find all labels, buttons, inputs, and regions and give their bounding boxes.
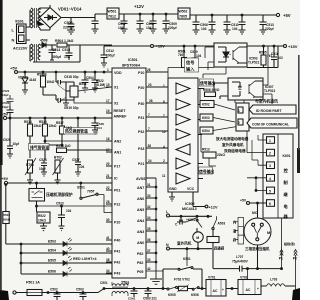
svg-text:K502: K502 [202,103,210,107]
svg-text:AWREF: AWREF [114,115,128,119]
svg-text:10A: 10A [64,55,71,59]
svg-text:+5V: +5V [240,199,247,203]
svg-text:S501: S501 [77,186,85,190]
svg-text:输入: 输入 [186,66,195,73]
svg-text:C515: C515 [62,48,70,52]
svg-text:+: + [222,288,224,292]
svg-text:C501: C501 [100,281,108,285]
svg-text:信号: 信号 [186,59,194,66]
svg-text:器: 器 [283,213,289,220]
svg-text:E503: E503 [48,240,56,244]
svg-text:P21: P21 [138,162,144,166]
svg-text:C505: C505 [64,21,73,25]
svg-text:8PST0064: 8PST0064 [122,64,141,68]
svg-text:TLP521: TLP521 [248,61,260,65]
svg-text:P32: P32 [138,130,144,134]
svg-text:K601: K601 [283,154,291,158]
svg-text:10kΩ: 10kΩ [47,80,55,84]
svg-text:P43: P43 [114,272,120,276]
svg-text:R500K: R500K [37,73,48,77]
svg-text:信号输出: 信号输出 [200,81,215,86]
svg-text:P01: P01 [114,189,120,193]
svg-text:220μf: 220μf [168,26,178,30]
svg-text:36: 36 [147,238,151,242]
svg-text:R506 200Ω: R506 200Ω [203,88,220,92]
svg-text:10μf: 10μf [39,167,46,171]
svg-text:33: 33 [147,258,151,262]
svg-text:AN6: AN6 [137,197,144,201]
svg-text:19: 19 [106,109,110,113]
svg-text:7: 7 [163,114,165,118]
svg-text:10μf: 10μf [2,105,9,109]
svg-text:10kΩ: 10kΩ [38,219,46,223]
svg-text:三相变频压缩机: 三相变频压缩机 [245,246,270,251]
svg-text:RESET: RESET [114,109,127,113]
svg-text:4508: 4508 [40,39,48,43]
svg-text:7: 7 [148,113,150,117]
svg-text:104: 104 [118,26,124,30]
svg-text:22: 22 [106,186,110,190]
svg-text:VD01~VD14: VD01~VD14 [58,7,82,12]
svg-text:AN0: AN0 [137,241,144,245]
svg-text:15kΩ: 15kΩ [34,124,42,128]
svg-text:COM OF COMMUNICAL: COM OF COMMUNICAL [252,123,289,127]
svg-text:4: 4 [269,177,271,181]
svg-text:P10: P10 [138,71,144,75]
svg-text:T501: T501 [121,281,129,285]
svg-text:705T: 705T [87,190,96,194]
svg-text:37: 37 [147,249,151,253]
svg-text:C524: C524 [39,158,47,162]
svg-text:4: 4 [163,145,165,149]
svg-text:104: 104 [66,209,72,213]
svg-text:102: 102 [278,56,284,60]
svg-text:20: 20 [106,162,110,166]
svg-text:26: 26 [147,68,151,72]
svg-text:15: 15 [106,83,110,87]
svg-text:30: 30 [106,218,110,222]
svg-text:28: 28 [149,99,153,103]
svg-text:XS01: XS01 [15,20,24,24]
svg-text:B501: B501 [79,82,87,86]
svg-text:P30: P30 [138,102,144,106]
svg-text:排气管管温: 排气管管温 [30,145,49,150]
svg-text:2: 2 [238,121,240,125]
svg-text:双绕组继电器: 双绕组继电器 [224,148,246,153]
svg-text:C561: C561 [128,297,136,300]
svg-text:2200μf: 2200μf [63,26,75,30]
svg-text:AVSS: AVSS [136,177,146,181]
svg-text:560Ω: 560Ω [3,218,11,222]
svg-text:制: 制 [284,179,288,186]
svg-text:BT03: BT03 [26,163,34,167]
svg-text:K501: K501 [183,257,191,261]
svg-text:R504 1.3kΩ: R504 1.3kΩ [55,39,74,43]
svg-text:2: 2 [163,159,165,163]
svg-text:(8.2M): (8.2M) [96,83,105,87]
svg-text:1: 1 [163,84,165,88]
svg-text:104: 104 [232,27,238,31]
svg-text:N: N [166,243,169,247]
svg-text:+5V: +5V [283,13,291,18]
svg-text:34: 34 [147,216,151,220]
svg-text:N: N [12,38,15,43]
svg-text:7812: 7812 [108,15,116,19]
svg-text:E506: E506 [48,270,56,274]
svg-text:C519 30p: C519 30p [64,106,78,110]
svg-text:16: 16 [106,137,110,141]
svg-text:空: 空 [238,85,242,90]
svg-text:E505: E505 [48,259,56,263]
svg-text:K505: K505 [168,293,176,297]
svg-text:ID ROOM PART: ID ROOM PART [256,109,282,113]
svg-text:VCC: VCC [187,187,195,191]
svg-text:42: 42 [147,267,151,271]
svg-text:AN4: AN4 [137,219,144,223]
svg-text:R522: R522 [38,214,46,218]
svg-text:+: + [257,287,259,291]
svg-text:P10: P10 [114,221,120,225]
svg-text:31: 31 [147,183,151,187]
svg-text:V701: V701 [208,276,216,280]
svg-text:P2: P2 [293,257,297,261]
svg-text:L703: L703 [270,278,277,282]
svg-text:热交换器管温: 热交换器管温 [65,129,88,134]
svg-text:34: 34 [106,269,110,273]
svg-text:5: 5 [269,189,271,193]
svg-text:41: 41 [106,236,110,240]
svg-text:K503: K503 [202,116,210,120]
svg-text:E504: E504 [48,249,56,253]
svg-text:C502: C502 [50,288,58,292]
svg-text:R515: R515 [39,120,47,124]
svg-text:38: 38 [106,258,110,262]
svg-text:P40: P40 [114,239,120,243]
svg-text:C504: C504 [86,76,94,80]
svg-text:MC: MC [252,211,258,215]
svg-text:40: 40 [106,247,110,251]
svg-text:信号输出: 信号输出 [199,169,214,174]
svg-text:R514: R514 [24,120,32,124]
svg-text:+5V: +5V [1,176,9,181]
svg-text:10: 10 [162,130,166,134]
svg-text:7k0: 7k0 [178,53,184,57]
svg-text:7: 7 [148,127,150,131]
svg-text:1: 1 [107,68,109,72]
svg-text:+K502: +K502 [186,218,196,222]
svg-text:+5V: +5V [10,66,18,71]
svg-text:AC: AC [246,288,251,292]
svg-text:C527: C527 [72,158,80,162]
svg-text:35: 35 [147,227,151,231]
svg-text:MIC4413: MIC4413 [182,207,197,211]
svg-text:K504: K504 [202,129,210,133]
svg-text:R505: R505 [259,51,267,55]
svg-text:21: 21 [106,174,110,178]
svg-text:11: 11 [162,174,166,178]
svg-text:A503: A503 [218,222,226,226]
svg-text:C525: C525 [3,138,11,142]
svg-text:C503: C503 [76,288,84,292]
svg-text:压缩机顶部保护: 压缩机顶部保护 [46,192,73,197]
svg-text:104: 104 [97,126,102,130]
svg-text:104: 104 [196,54,202,58]
svg-text:AN2: AN2 [114,140,121,144]
svg-text:启: 启 [233,237,237,242]
svg-text:AC220V: AC220V [13,47,28,51]
svg-text:GND: GND [169,187,177,191]
svg-text:IC: IC [114,177,118,181]
svg-text:1: 1 [238,109,240,113]
svg-text:1: 1 [269,139,271,143]
svg-text:室外风机: 室外风机 [177,241,192,246]
svg-text:6: 6 [269,202,271,206]
svg-text:P12: P12 [114,203,120,207]
svg-text:C563 221: C563 221 [143,297,157,300]
svg-text:100μf: 100μf [106,54,116,58]
svg-text:P05: P05 [137,270,143,274]
svg-text:10μf: 10μf [2,93,9,97]
svg-text:P41: P41 [114,250,120,254]
svg-text:4148: 4148 [29,78,36,82]
svg-text:R518 1kΩ: R518 1kΩ [56,144,71,148]
svg-text:7805: 7805 [179,15,187,19]
svg-text:R549: R549 [3,213,11,217]
svg-text:23: 23 [148,83,152,87]
svg-text:3: 3 [269,164,271,168]
svg-text:33: 33 [147,194,151,198]
svg-text:P42: P42 [114,261,120,265]
svg-text:220μf: 220μf [265,27,275,31]
svg-text:IC501: IC501 [128,58,138,62]
svg-text:BT02: BT02 [54,156,62,160]
svg-text:24: 24 [148,159,152,163]
svg-text:AN3: AN3 [137,230,144,234]
svg-text:P20: P20 [138,86,144,90]
svg-text:AN1: AN1 [114,151,121,155]
svg-text:W501: W501 [108,10,117,14]
svg-text:8: 8 [163,100,165,104]
svg-text:四通阀: 四通阀 [214,246,225,251]
svg-text:内: 内 [233,220,237,225]
svg-text:32: 32 [147,205,151,209]
svg-text:R517: R517 [56,121,64,125]
svg-text:17: 17 [106,99,110,103]
svg-text:V702: V702 [240,276,248,280]
svg-text:放大电流驱动继电器: 放大电流驱动继电器 [215,136,249,141]
svg-text:75μF/400V: 75μF/400V [232,260,249,264]
svg-text:L707: L707 [236,255,243,259]
svg-text:104: 104 [201,27,207,31]
svg-text:W502: W502 [179,10,188,14]
svg-text:C512: C512 [106,49,114,53]
svg-text:TLP521: TLP521 [264,89,276,93]
svg-text:C518 30p: C518 30p [64,75,78,79]
svg-text:P31: P31 [138,116,144,120]
svg-text:VDD: VDD [114,71,122,75]
svg-text:+15V: +15V [156,44,166,49]
svg-text:F702 VT02: F702 VT02 [174,278,190,282]
svg-text:RED LIGHT×4: RED LIGHT×4 [73,257,96,261]
svg-text:+15V: +15V [288,44,298,49]
svg-text:AN5: AN5 [137,208,144,212]
svg-text:P82: P82 [137,252,143,256]
svg-text:C514: C514 [52,48,60,52]
svg-text:P17: P17 [114,165,120,169]
svg-text:X1: X1 [114,86,118,90]
svg-text:X2: X2 [114,102,118,106]
svg-text:IC502: IC502 [185,202,195,206]
svg-text:与室内机通讯: 与室内机通讯 [255,99,278,104]
svg-text:2: 2 [269,152,271,156]
svg-text:F501 1A: F501 1A [26,281,40,285]
svg-text:P82: P82 [137,261,143,265]
svg-text:R513: R513 [202,148,210,152]
svg-text:室外风扇电机: 室外风扇电机 [222,142,244,147]
svg-text:AN7: AN7 [137,186,144,190]
svg-text:滑: 滑 [233,228,237,233]
svg-text:M: M [196,236,199,240]
svg-text:104: 104 [79,165,85,169]
svg-text:28: 28 [106,200,110,204]
svg-text:104: 104 [146,26,152,30]
svg-text:22kΩ: 22kΩ [217,153,225,157]
svg-text:10μf: 10μf [13,142,20,146]
svg-text:38: 38 [148,144,152,148]
svg-text:相线(黑): 相线(黑) [284,241,295,246]
svg-text:P1: P1 [279,257,283,261]
svg-text:P33: P33 [138,147,144,151]
svg-text:C523: C523 [56,202,64,206]
svg-text:+12V: +12V [209,206,218,210]
svg-text:K506: K506 [191,293,199,297]
svg-text:+12V: +12V [134,4,144,9]
svg-text:AC: AC [213,289,218,293]
svg-text:300μf: 300μf [52,55,62,59]
